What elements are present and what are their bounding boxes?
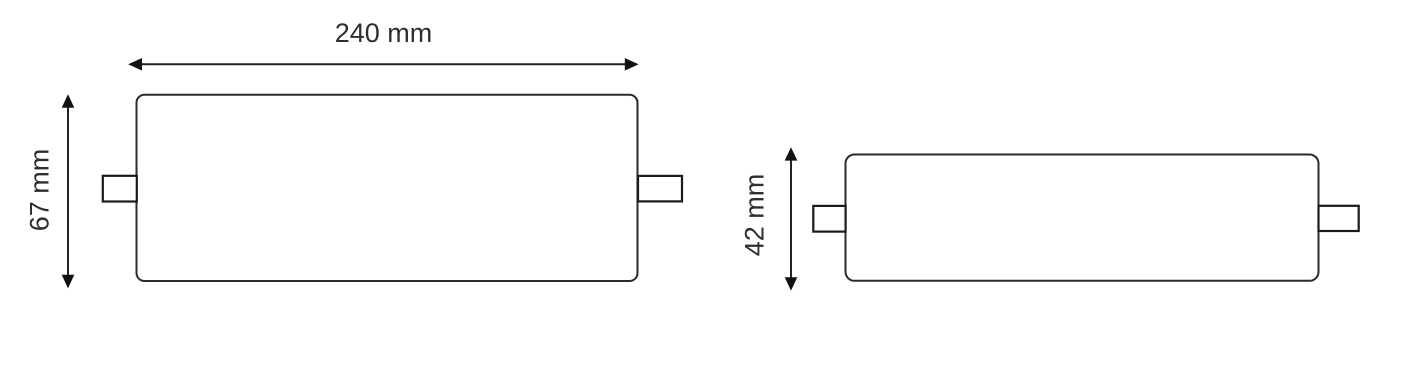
left pin tab (side view) <box>813 206 845 232</box>
enclosure body outline (top view) <box>137 95 638 281</box>
top arrowhead of 67 mm dimension <box>62 94 75 108</box>
vertical dimension line (42 mm) <box>790 159 792 279</box>
enclosure body outline (side view) <box>846 155 1319 281</box>
bottom arrowhead of 67 mm dimension <box>62 275 75 289</box>
left arrowhead of 240 mm dimension <box>128 58 142 71</box>
svg-text:240 mm: 240 mm <box>335 18 433 48</box>
svg-text:67 mm: 67 mm <box>24 149 54 232</box>
right pin tab (side view) <box>1319 206 1359 231</box>
svg-text:42 mm: 42 mm <box>739 174 769 257</box>
vertical dimension line (67 mm) <box>67 106 69 277</box>
right mounting tab (top view) <box>638 176 682 202</box>
right arrowhead of 240 mm dimension <box>625 58 639 71</box>
horizontal dimension line (240 mm) <box>140 63 627 65</box>
bottom arrowhead of 42 mm dimension <box>785 277 798 290</box>
left mounting tab (top view) <box>103 176 137 202</box>
top arrowhead of 42 mm dimension <box>785 147 798 160</box>
